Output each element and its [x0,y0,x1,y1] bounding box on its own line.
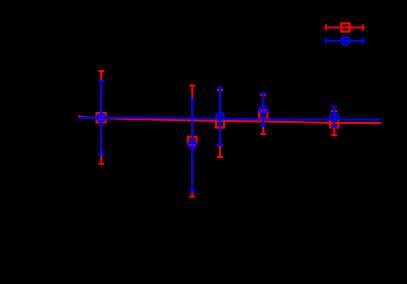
point P5 blue circle marker [330,113,338,121]
point P3 red square marker [216,119,224,127]
point P5 red square marker [330,119,338,127]
legend red square marker [341,23,349,31]
point P5 red error bar [331,111,337,135]
point P1 red error bar [98,71,104,164]
point P3 blue error bar [217,88,223,145]
point P2 red error bar [189,86,195,197]
point P4 red error bar [260,95,266,134]
point P4 blue error bar [260,94,266,126]
blue fit line [78,118,381,120]
point P4 blue circle marker [259,106,267,114]
point P2 red square marker [188,137,196,145]
point P3 blue circle marker [216,113,224,121]
legend red errorbar sample [325,24,364,30]
point P1 blue circle marker [97,114,105,122]
point P1 blue error bar [98,81,104,155]
red fit curve [78,116,381,123]
point P3 red error bar [217,90,223,157]
point P2 blue circle marker [188,141,196,149]
point P1 red square marker [96,112,107,123]
point P5 blue error bar [331,107,337,127]
point P4 red square marker [259,110,267,118]
point P2 blue error bar [189,100,195,192]
legend blue errorbar sample [325,38,364,44]
legend blue circle marker [342,37,350,45]
